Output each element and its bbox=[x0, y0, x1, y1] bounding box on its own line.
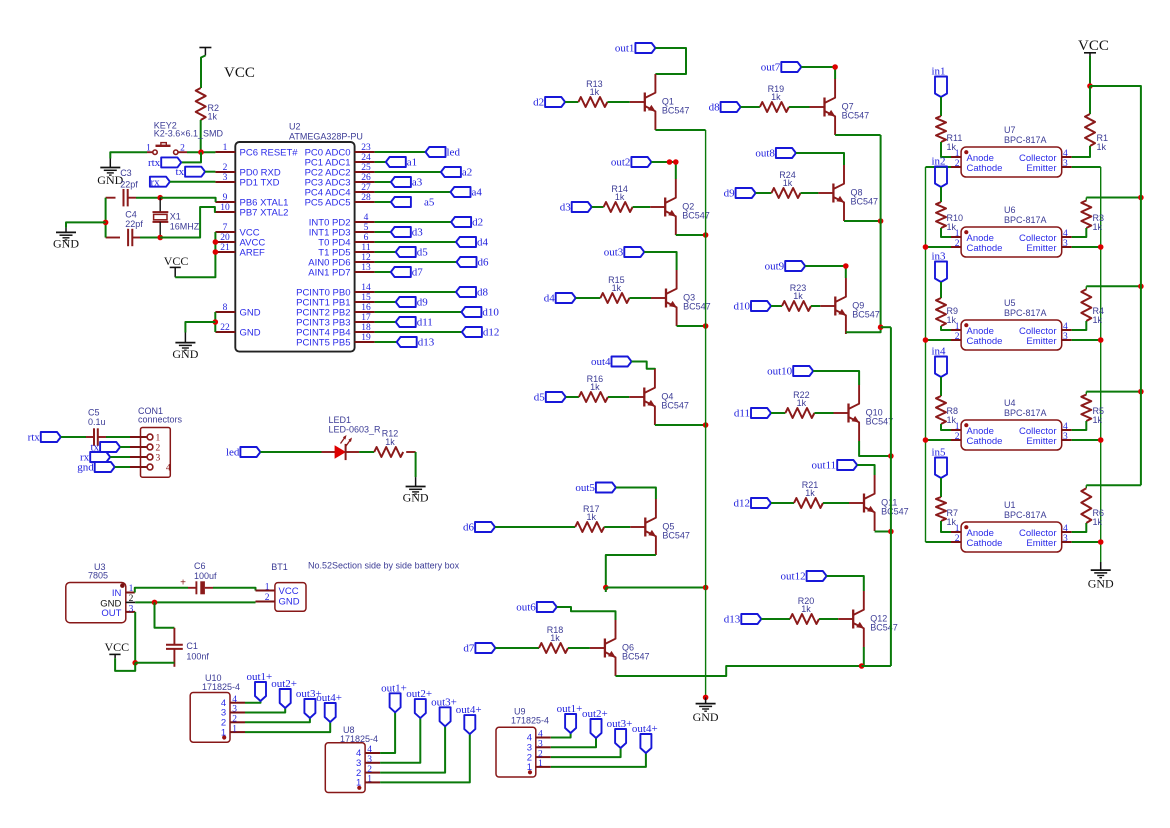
U7 pin 1 stub bbox=[951, 156, 961, 158]
svg-text:d12: d12 bbox=[734, 497, 751, 509]
U8 pin 2 bbox=[365, 772, 380, 774]
svg-text:out2: out2 bbox=[611, 156, 631, 168]
wire R1 to U7 pin4 bbox=[1072, 146, 1090, 157]
wire out9 to Q9 collector bbox=[805, 266, 846, 278]
svg-text:C5: C5 bbox=[88, 407, 100, 417]
U2 pin 16 PCINT2 PB2 bbox=[355, 311, 375, 313]
wire U8 pin 2 to out3+ bbox=[380, 726, 445, 772]
wire out10 to Q10 collector bbox=[813, 371, 859, 385]
U2 pin 13 AIN1 PD7 bbox=[355, 271, 375, 273]
node cathode bus junction at U4 bbox=[923, 437, 929, 443]
svg-text:1k: 1k bbox=[801, 604, 811, 614]
U10 pin 4 bbox=[230, 702, 245, 704]
net flag out6 bbox=[537, 602, 557, 612]
net flag out2+ (U8) bbox=[415, 699, 426, 718]
svg-text:16MHZ: 16MHZ bbox=[170, 221, 200, 231]
net flag in2 bbox=[935, 167, 947, 188]
node bus jog junction bbox=[878, 324, 884, 330]
U5 pin1 marker dot bbox=[964, 323, 968, 327]
svg-text:K2-3.6×6.1_SMD: K2-3.6×6.1_SMD bbox=[154, 129, 224, 139]
node emitter chain junction at U4 bbox=[1098, 437, 1104, 443]
wire gnd to CON1 pin4 bbox=[115, 466, 130, 468]
wire d4 to R15 bbox=[576, 297, 601, 299]
svg-text:d12: d12 bbox=[483, 326, 500, 338]
svg-text:12: 12 bbox=[361, 253, 371, 263]
U2 pin 8 GND bbox=[215, 311, 235, 313]
U6 pin 3 stub bbox=[1062, 246, 1072, 248]
svg-text:3: 3 bbox=[1063, 534, 1068, 544]
wire U2 to net d13 bbox=[375, 341, 397, 343]
svg-text:22pf: 22pf bbox=[125, 219, 143, 229]
net flag d13 bbox=[741, 614, 761, 624]
wire R3 to U6 pin4 bbox=[1072, 228, 1087, 237]
svg-text:28: 28 bbox=[361, 193, 371, 203]
net flag out1+ (U8) bbox=[390, 693, 401, 712]
wire Q2 emitter to GND bus bbox=[676, 234, 706, 236]
node cathode bus junction at U6 bbox=[923, 244, 929, 250]
svg-text:a2: a2 bbox=[462, 166, 472, 178]
U1 pin 2 stub bbox=[951, 541, 961, 543]
U4 pin 4 stub bbox=[1062, 429, 1072, 431]
svg-text:1: 1 bbox=[221, 727, 226, 738]
svg-text:d11: d11 bbox=[417, 316, 433, 328]
wire U2 GND pins to ground bbox=[214, 312, 216, 332]
wire bus jog bbox=[881, 326, 891, 328]
svg-text:22: 22 bbox=[220, 323, 230, 333]
transistor Q7 BC547 bbox=[823, 98, 825, 117]
svg-text:26: 26 bbox=[361, 173, 371, 183]
wire XTAL1 node to U2 pin9 bbox=[160, 198, 215, 202]
wire U2 to net d4 bbox=[375, 241, 456, 243]
U8 pin 4 bbox=[365, 752, 380, 754]
svg-text:6: 6 bbox=[364, 233, 369, 243]
svg-text:d9: d9 bbox=[417, 296, 429, 308]
node Q5 emitter junction bbox=[603, 585, 609, 591]
net flag out4+ (U8) bbox=[464, 715, 475, 734]
U6 pin 4 stub bbox=[1062, 236, 1072, 238]
svg-text:AREF: AREF bbox=[240, 247, 266, 258]
svg-text:171825-4: 171825-4 bbox=[511, 716, 549, 726]
svg-text:out1: out1 bbox=[615, 42, 635, 54]
U1 pin 3 stub bbox=[1062, 541, 1072, 543]
U7 pin1 marker dot bbox=[964, 150, 968, 154]
U10 pin 1 bbox=[230, 731, 245, 733]
svg-text:PC6 RESET#: PC6 RESET# bbox=[240, 147, 299, 158]
svg-text:23: 23 bbox=[361, 143, 371, 153]
U3 pin 1 IN bbox=[126, 592, 135, 594]
svg-text:1k: 1k bbox=[1097, 142, 1107, 152]
U10 pin 3 bbox=[230, 712, 245, 714]
wire d10 to R23 bbox=[771, 305, 782, 307]
svg-text:VCC: VCC bbox=[279, 586, 299, 597]
resistor R12 bbox=[374, 447, 403, 457]
ground GND (opto emitters) bbox=[1100, 562, 1102, 570]
CON1 pin 1 bbox=[130, 436, 147, 438]
wire R6 to U1 pin4 bbox=[1072, 523, 1087, 532]
resistor R10 bbox=[936, 202, 946, 228]
net flag d5 bbox=[546, 392, 566, 402]
wire out2 to Q2 collector bbox=[651, 162, 675, 179]
svg-text:out1+: out1+ bbox=[381, 682, 407, 694]
wire C5 to CON1 pin1 bbox=[106, 436, 130, 438]
resistor R24 bbox=[772, 188, 801, 198]
U2 pin 19 PCINT5 PB5 bbox=[355, 341, 375, 343]
wire cathode bus to U7 pin2 bbox=[926, 166, 952, 168]
svg-text:Emitter: Emitter bbox=[1026, 163, 1056, 174]
U2 pin 9 PB6 XTAL1 bbox=[215, 201, 235, 203]
svg-text:4: 4 bbox=[1063, 322, 1068, 332]
U2 pin 14 PCINT0 PB0 bbox=[355, 291, 375, 293]
svg-text:BPC-817A: BPC-817A bbox=[1004, 135, 1047, 145]
regulator U3 7805 body bbox=[66, 583, 126, 623]
wire d2 to R13 bbox=[565, 101, 578, 103]
node Q10 emitter junction bbox=[888, 453, 894, 459]
U5 pin 2 stub bbox=[951, 339, 961, 341]
svg-text:BC547: BC547 bbox=[866, 417, 894, 427]
U2 pin 11 T1 PD5 bbox=[355, 251, 375, 253]
ground GND (U2) bbox=[184, 333, 186, 343]
net flag out1 bbox=[635, 43, 655, 53]
net flag gnd (serial header) bbox=[95, 462, 115, 472]
node emitter chain junction at U5 bbox=[1098, 337, 1104, 343]
U6 pin 2 stub bbox=[951, 246, 961, 248]
svg-text:3: 3 bbox=[223, 173, 228, 183]
net flag led bbox=[240, 447, 260, 457]
U7 pin 3 stub bbox=[1062, 166, 1072, 168]
svg-text:27: 27 bbox=[361, 183, 371, 193]
svg-text:a4: a4 bbox=[472, 186, 483, 198]
svg-text:C3: C3 bbox=[120, 168, 132, 178]
net flag out3+ (U9) bbox=[615, 729, 626, 748]
wire mid GND bus (vertical) bbox=[705, 130, 707, 697]
svg-text:4: 4 bbox=[1063, 422, 1068, 432]
ground GND (transistor bus) bbox=[705, 697, 707, 703]
svg-text:2: 2 bbox=[955, 239, 960, 249]
svg-text:out6: out6 bbox=[516, 601, 536, 613]
svg-text:1: 1 bbox=[356, 778, 361, 789]
wire out8 to Q8 collector bbox=[796, 153, 844, 165]
wire cap bus to GND symbol bbox=[66, 222, 106, 227]
wire U2 to net d5 bbox=[375, 251, 396, 253]
svg-text:2: 2 bbox=[955, 534, 960, 544]
U2 pin 4 INT0 PD2 bbox=[355, 221, 375, 223]
svg-text:VCC: VCC bbox=[105, 640, 130, 654]
svg-text:rx: rx bbox=[151, 176, 161, 188]
wire R4 to U5 pin4 bbox=[1072, 321, 1087, 330]
wire junction to C1 bbox=[155, 602, 175, 627]
wire Q8 emitter to bus bbox=[844, 220, 881, 222]
resistor R18 bbox=[539, 643, 568, 653]
net flag a1 bbox=[386, 157, 406, 167]
svg-text:VCC: VCC bbox=[224, 65, 255, 81]
svg-text:U5: U5 bbox=[1004, 298, 1016, 308]
wire out11 to Q11 collector bbox=[857, 465, 874, 475]
svg-text:d13: d13 bbox=[724, 613, 741, 625]
wire Q1 emitter to GND bus bbox=[655, 129, 705, 131]
U10 pin 2 bbox=[230, 721, 245, 723]
svg-text:1k: 1k bbox=[771, 92, 781, 102]
svg-text:GND: GND bbox=[693, 710, 719, 724]
wire R13 to Q1 base bbox=[607, 101, 629, 103]
wire junction to C1 bottom bbox=[135, 662, 174, 664]
svg-text:GND: GND bbox=[279, 597, 300, 608]
wire R17 to Q5 base bbox=[604, 526, 630, 528]
wire d5 to R16 bbox=[566, 396, 579, 398]
svg-text:PC5 ADC5: PC5 ADC5 bbox=[305, 197, 351, 208]
wire R8 to U4 pin1 bbox=[941, 424, 951, 430]
net flag d11 bbox=[396, 317, 416, 327]
wire U5 pin3 to emitter chain bbox=[1072, 339, 1101, 341]
connector U8 171825-4 body bbox=[325, 743, 365, 793]
svg-text:d3: d3 bbox=[560, 201, 572, 213]
wire KEY2 pin1 to GND bbox=[110, 152, 147, 158]
wire U9 pin 4 to out1+ bbox=[551, 733, 571, 738]
svg-text:4: 4 bbox=[1063, 229, 1068, 239]
svg-text:Emitter: Emitter bbox=[1026, 336, 1056, 347]
svg-text:1: 1 bbox=[367, 775, 372, 785]
net flag d8 bbox=[456, 287, 476, 297]
U2 pin 17 PCINT3 PB3 bbox=[355, 321, 375, 323]
ground GND (LED) bbox=[415, 477, 417, 486]
svg-text:PB7 XTAL2: PB7 XTAL2 bbox=[240, 207, 289, 218]
battery connector BT1 body bbox=[275, 583, 306, 612]
wire U6 pin3 to emitter chain bbox=[1072, 246, 1101, 248]
wire U4 pin3 to emitter chain bbox=[1072, 439, 1101, 441]
svg-text:BC547: BC547 bbox=[622, 652, 650, 662]
svg-text:4: 4 bbox=[1063, 524, 1068, 534]
svg-text:out11: out11 bbox=[812, 459, 837, 471]
wire Q5 junction to GND bus bbox=[606, 587, 706, 589]
svg-text:1k: 1k bbox=[947, 222, 957, 232]
wire tx to CON1 pin2 bbox=[120, 446, 130, 448]
node Q3 emitter junction bbox=[703, 323, 709, 329]
node Q4 emitter junction bbox=[703, 422, 709, 428]
wire R7 to U1 pin1 bbox=[941, 521, 951, 532]
svg-text:5: 5 bbox=[364, 223, 369, 233]
node GND pins junction bbox=[213, 319, 219, 325]
net flag d3 bbox=[391, 227, 411, 237]
svg-text:1k: 1k bbox=[615, 192, 625, 202]
transistor Q11 BC547 bbox=[863, 494, 865, 513]
wire R14 to Q2 base bbox=[633, 206, 651, 208]
transistor Q5 BC547 bbox=[644, 518, 646, 537]
power flag VCC (top, above R2) bbox=[199, 47, 211, 49]
svg-text:LED-0603_R: LED-0603_R bbox=[329, 425, 382, 435]
wire U2 to net led bbox=[375, 151, 426, 153]
svg-text:1: 1 bbox=[129, 584, 134, 594]
svg-text:out1+: out1+ bbox=[247, 671, 273, 683]
transistor Q8 BC547 bbox=[832, 184, 834, 203]
svg-text:d6: d6 bbox=[463, 521, 475, 533]
svg-text:BC547: BC547 bbox=[851, 197, 879, 207]
wire U2 to net a3 bbox=[375, 181, 391, 183]
svg-text:U4: U4 bbox=[1004, 398, 1016, 408]
resistor R7 bbox=[936, 497, 946, 521]
svg-text:d2: d2 bbox=[533, 96, 544, 108]
node VCC bus junction at R4 bbox=[1138, 284, 1144, 290]
U2 pin 5 INT1 PD3 bbox=[355, 231, 375, 233]
svg-text:2: 2 bbox=[955, 159, 960, 169]
wire U2 to net a1 bbox=[375, 161, 386, 163]
svg-text:4: 4 bbox=[364, 213, 369, 223]
wire C3 to X1 node bbox=[128, 197, 136, 199]
svg-text:1: 1 bbox=[538, 759, 543, 769]
wire R10 to U6 pin1 bbox=[941, 228, 951, 237]
resistor R19 bbox=[760, 102, 789, 112]
node cap bus to ground bbox=[103, 220, 109, 226]
wire R11 to U7 pin1 bbox=[941, 142, 951, 157]
wire cathode bus to U5 pin2 bbox=[926, 339, 952, 341]
svg-text:4: 4 bbox=[1063, 149, 1068, 159]
svg-text:in4: in4 bbox=[932, 346, 947, 358]
svg-text:1: 1 bbox=[265, 582, 270, 592]
svg-text:Emitter: Emitter bbox=[1026, 436, 1056, 447]
svg-text:d5: d5 bbox=[534, 391, 546, 403]
net flag out4+ (U10) bbox=[325, 703, 336, 722]
node Q8 emitter junction bbox=[878, 218, 884, 224]
svg-text:18: 18 bbox=[361, 323, 371, 333]
U4 pin1 marker dot bbox=[964, 423, 968, 427]
U2 pin 10 PB7 XTAL2 bbox=[215, 211, 235, 213]
svg-text:1: 1 bbox=[527, 762, 532, 773]
net flag d9 bbox=[396, 297, 416, 307]
svg-text:1k: 1k bbox=[208, 112, 218, 122]
wire XTAL1 row bbox=[106, 197, 116, 199]
svg-text:4: 4 bbox=[166, 464, 171, 474]
svg-text:2: 2 bbox=[156, 444, 161, 454]
svg-text:7805: 7805 bbox=[88, 571, 108, 581]
svg-text:Cathode: Cathode bbox=[967, 538, 1003, 549]
net flag out12 bbox=[807, 571, 827, 581]
wire U2 to net d11 bbox=[375, 321, 396, 323]
U2 pin 2 PD0 RXD bbox=[215, 171, 235, 173]
wire R23 to Q9 base bbox=[811, 305, 820, 307]
wire out7 to Q7 collector bbox=[801, 67, 835, 79]
svg-text:a5: a5 bbox=[424, 196, 435, 208]
net flag rx (serial header) bbox=[90, 452, 110, 462]
wire U2 to net d2 bbox=[375, 221, 452, 223]
wire U8 pin 1 to out4+ bbox=[380, 734, 470, 782]
svg-text:BPC-817A: BPC-817A bbox=[1004, 215, 1047, 225]
resistor R15 bbox=[600, 293, 629, 303]
wire U2 to net a2 bbox=[375, 171, 441, 173]
U2 pin 7 VCC bbox=[215, 231, 235, 233]
U4 pin 2 stub bbox=[951, 439, 961, 441]
IC U2 ATMEGA328P-PU body bbox=[235, 142, 354, 352]
svg-text:1k: 1k bbox=[947, 142, 957, 152]
resistor R22 bbox=[785, 408, 814, 418]
connector U9 171825-4 body bbox=[496, 727, 536, 777]
wire U2 to net d6 bbox=[375, 261, 457, 263]
svg-text:d8: d8 bbox=[477, 286, 489, 298]
svg-text:a3: a3 bbox=[412, 176, 423, 188]
resistor R4 bbox=[1085, 286, 1087, 289]
wire in4 to R8 bbox=[940, 377, 942, 396]
svg-text:21: 21 bbox=[220, 243, 230, 253]
net flag out8 bbox=[776, 148, 796, 158]
svg-text:GND: GND bbox=[240, 307, 261, 318]
wire U9 pin 2 to out3+ bbox=[551, 748, 621, 757]
wire C4 to X1 bottom node bbox=[132, 237, 140, 239]
wire U2 to net d8 bbox=[375, 291, 456, 293]
wire reset node to rtx flag bbox=[181, 152, 201, 162]
U6 pin1 marker dot bbox=[964, 230, 968, 234]
svg-text:C6: C6 bbox=[194, 561, 206, 571]
resistor R3 bbox=[1085, 198, 1087, 201]
switch KEY2 K2-3.6x6.1_SMD bbox=[153, 150, 157, 154]
wire in3 to R9 bbox=[940, 282, 942, 298]
wire R21 to Q11 base bbox=[823, 502, 849, 504]
svg-text:C1: C1 bbox=[186, 641, 198, 651]
U5 pin 3 stub bbox=[1062, 339, 1072, 341]
wire LED1 to R12 bbox=[346, 451, 360, 453]
node VCC junction bbox=[1087, 83, 1093, 89]
node cathode bus junction at U5 bbox=[923, 337, 929, 343]
svg-text:BC547: BC547 bbox=[842, 111, 870, 121]
resistor R2 bbox=[196, 88, 206, 120]
wire R18 to Q6 base bbox=[568, 647, 590, 649]
wire cathode bus to U4 pin2 bbox=[926, 439, 952, 441]
U2 pin 23 PC0 ADC0 bbox=[355, 151, 375, 153]
svg-text:rtx: rtx bbox=[148, 157, 161, 169]
svg-text:GND: GND bbox=[1088, 577, 1114, 591]
svg-text:d2: d2 bbox=[472, 216, 483, 228]
svg-text:BT1: BT1 bbox=[271, 562, 288, 572]
U9 pin 1 bbox=[536, 766, 551, 768]
U2 pin 28 PC5 ADC5 bbox=[355, 201, 375, 203]
svg-text:PCINT5 PB5: PCINT5 PB5 bbox=[296, 337, 350, 348]
svg-text:16: 16 bbox=[361, 303, 371, 313]
svg-text:11: 11 bbox=[361, 243, 370, 253]
svg-text:100uf: 100uf bbox=[194, 571, 217, 581]
capacitor C3 bbox=[123, 189, 125, 206]
svg-text:1: 1 bbox=[223, 143, 228, 153]
net flag in1 bbox=[935, 77, 947, 98]
svg-text:d6: d6 bbox=[478, 256, 490, 268]
svg-text:out3: out3 bbox=[604, 246, 624, 258]
U8 pin 3 bbox=[365, 762, 380, 764]
svg-text:2: 2 bbox=[538, 749, 543, 759]
node VCC bus junction at R3 bbox=[1138, 195, 1144, 201]
wire R19 to Q7 base bbox=[789, 106, 810, 108]
svg-text:2: 2 bbox=[129, 594, 134, 604]
node out2 wire dots bbox=[667, 159, 673, 165]
svg-text:PD1 TXD: PD1 TXD bbox=[240, 177, 280, 188]
svg-text:24: 24 bbox=[361, 153, 371, 163]
wire VCC bus to R3 bbox=[1086, 197, 1141, 199]
svg-text:connectors: connectors bbox=[138, 415, 183, 425]
svg-text:BC547: BC547 bbox=[852, 310, 880, 320]
svg-text:100nf: 100nf bbox=[186, 652, 209, 662]
svg-text:d11: d11 bbox=[734, 407, 750, 419]
resistor R1 bbox=[1085, 114, 1095, 146]
svg-text:out2+: out2+ bbox=[406, 688, 432, 700]
wire C6 to BT1 pin1 bbox=[205, 587, 213, 589]
node OUT/VCC junction bbox=[132, 660, 138, 666]
transistor Q2 BC547 bbox=[664, 198, 666, 217]
svg-text:d4: d4 bbox=[544, 292, 556, 304]
svg-text:BC547: BC547 bbox=[661, 401, 689, 411]
transistor Q3 BC547 bbox=[665, 289, 667, 308]
resistor R16 bbox=[579, 392, 608, 402]
svg-text:15: 15 bbox=[361, 293, 371, 303]
net flag a5 bbox=[391, 197, 411, 207]
resistor R21 bbox=[794, 498, 823, 508]
net flag out11 bbox=[837, 460, 857, 470]
svg-text:out1+: out1+ bbox=[557, 703, 583, 715]
node VCC bus junction at R5 bbox=[1138, 389, 1144, 395]
svg-text:out3+: out3+ bbox=[607, 718, 633, 730]
